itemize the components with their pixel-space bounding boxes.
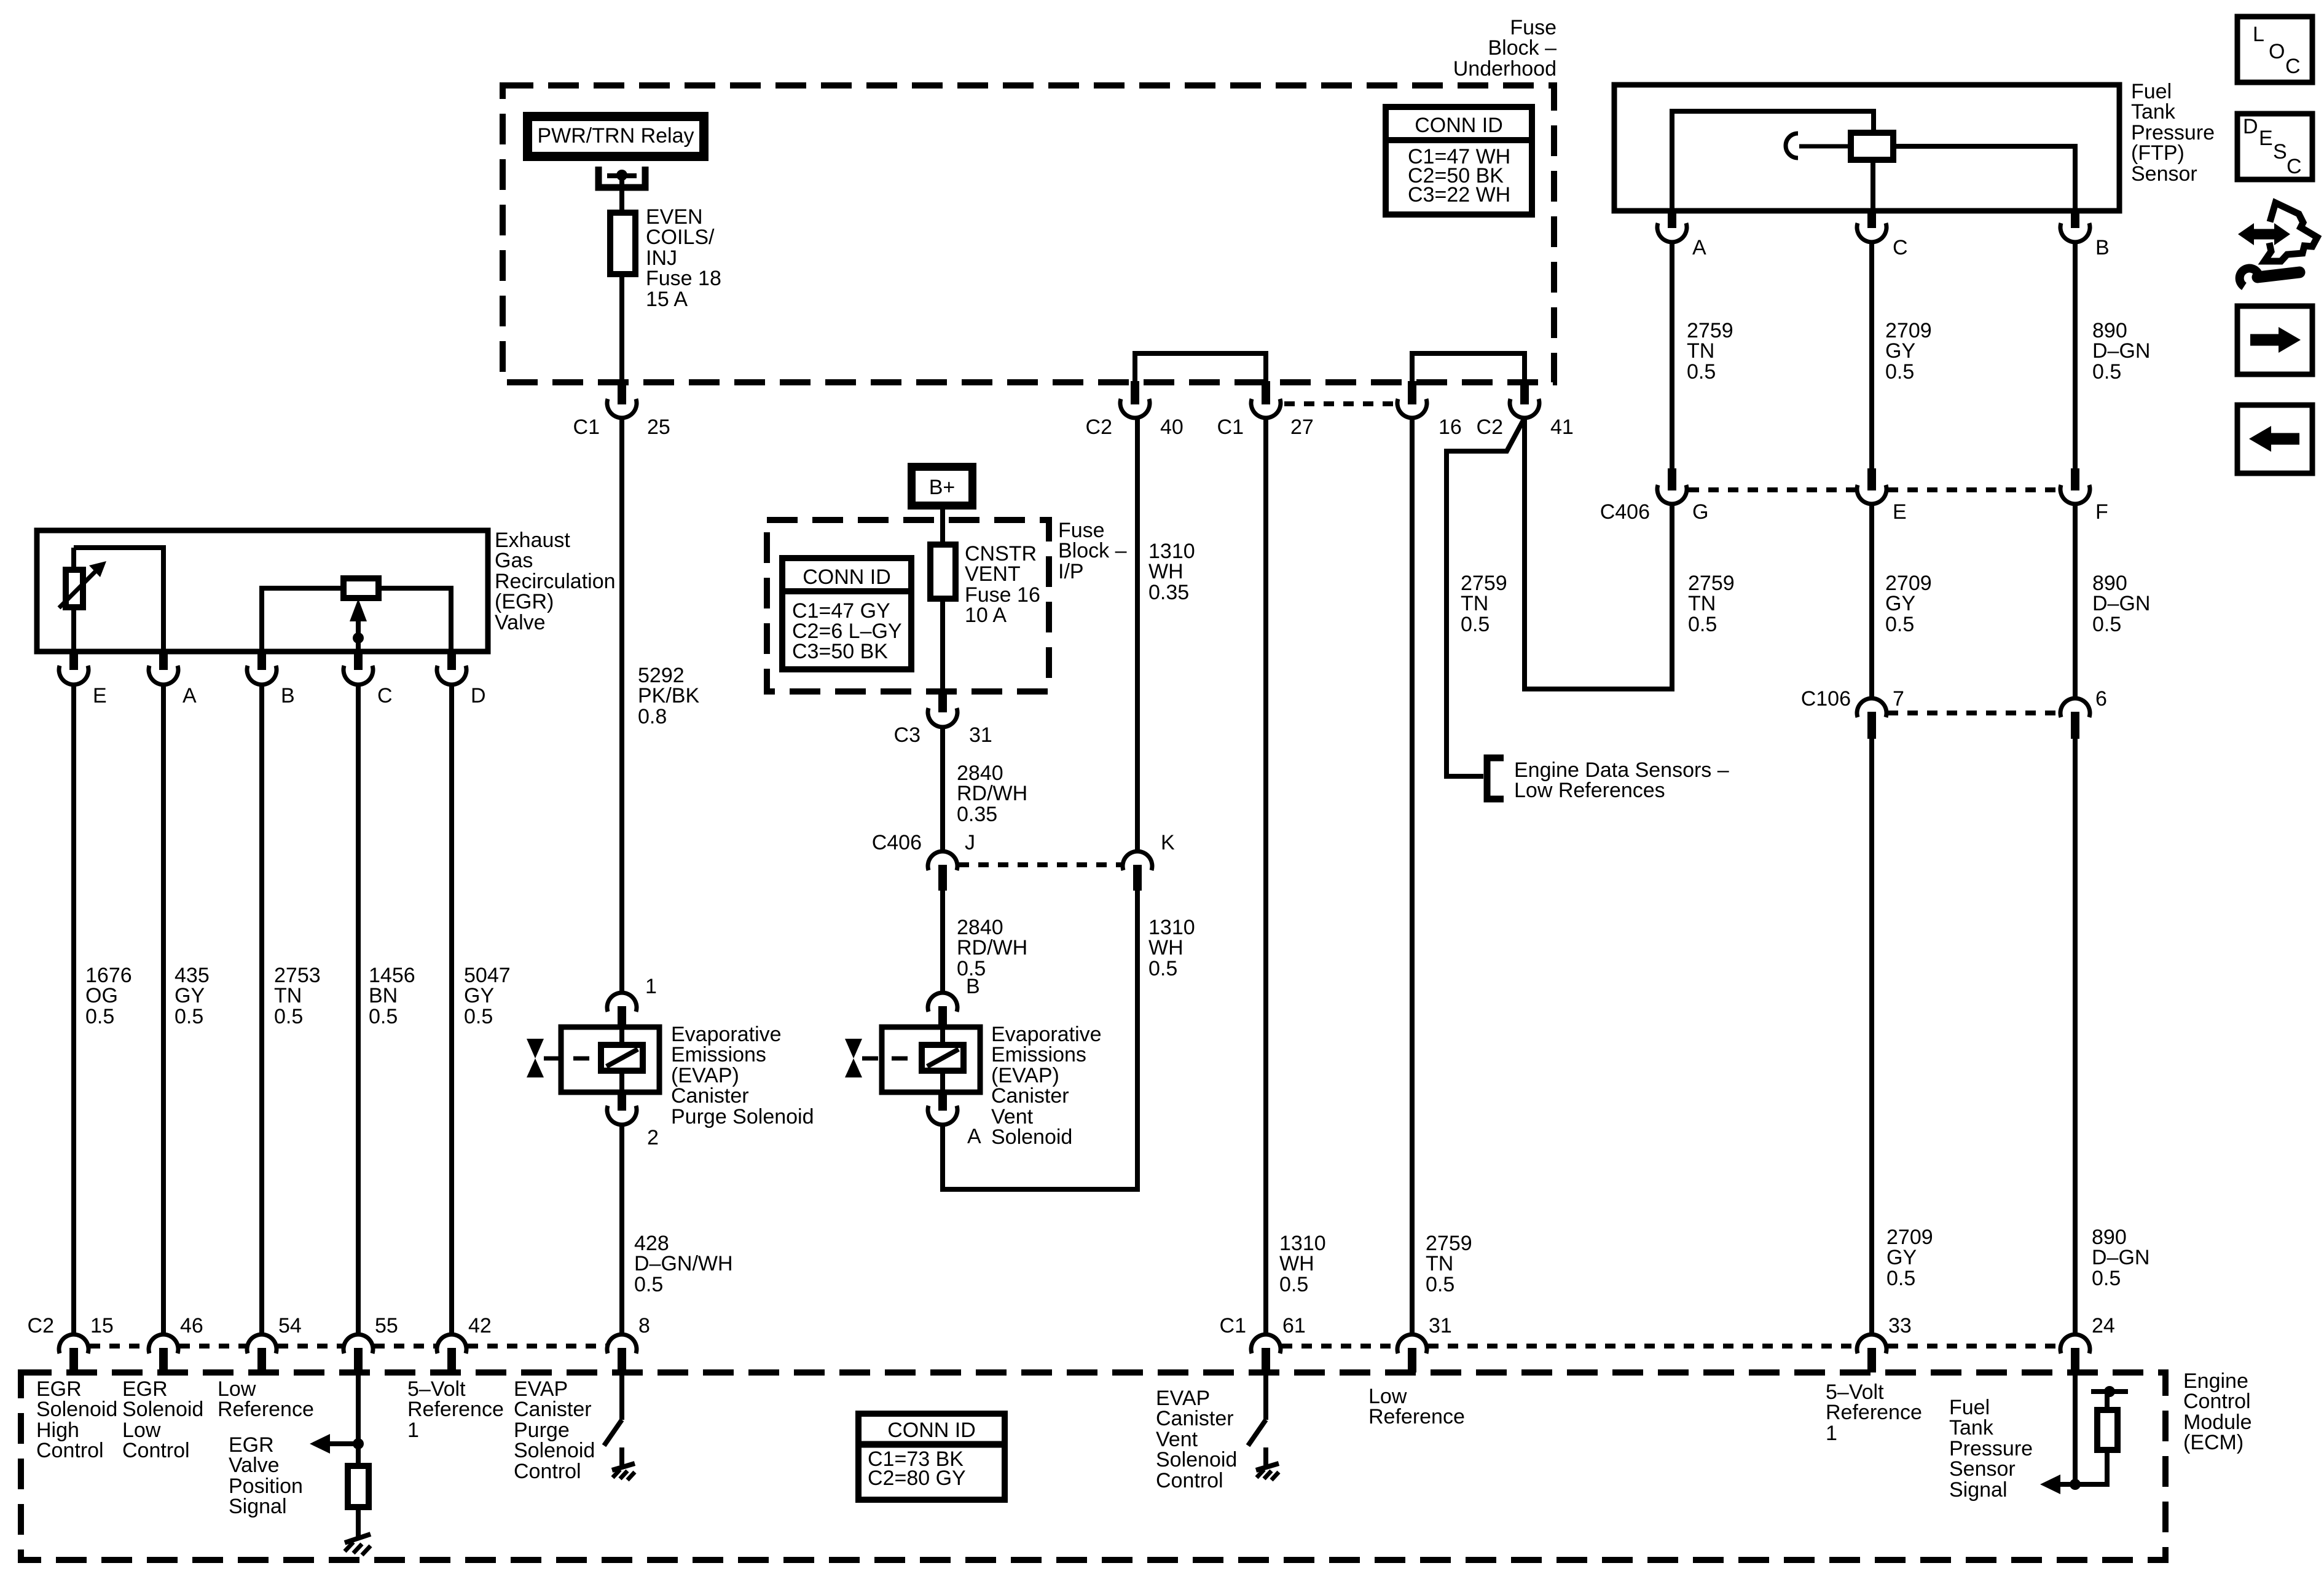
EGR position sensor potentiometer bbox=[262, 588, 451, 652]
svg-text:Control: Control bbox=[1156, 1469, 1223, 1492]
svg-text:C3=50 BK: C3=50 BK bbox=[792, 640, 888, 663]
svg-text:Solenoid: Solenoid bbox=[36, 1398, 117, 1421]
wire fuse 16 to C3-31 bbox=[940, 599, 945, 712]
svg-text:Canister: Canister bbox=[514, 1398, 592, 1421]
wire 5047 GY 0.5 (D to ECM 42) bbox=[449, 683, 454, 1336]
svg-text:Canister: Canister bbox=[1156, 1407, 1234, 1430]
svg-text:OG: OG bbox=[85, 984, 118, 1007]
svg-text:Low References: Low References bbox=[1514, 779, 1665, 802]
svg-text:0.5: 0.5 bbox=[274, 1005, 303, 1028]
switch EVAP vent solenoid control (pin 61) bbox=[1263, 1372, 1268, 1420]
svg-text:TN: TN bbox=[274, 984, 302, 1007]
svg-text:Emissions: Emissions bbox=[671, 1043, 766, 1066]
icon arrow left box bbox=[2237, 405, 2312, 473]
svg-text:10 A: 10 A bbox=[965, 604, 1007, 627]
svg-text:0.5: 0.5 bbox=[369, 1005, 398, 1028]
EGR wiper arrow bbox=[356, 605, 361, 652]
svg-text:TN: TN bbox=[1687, 339, 1714, 363]
svg-text:B: B bbox=[2095, 236, 2110, 259]
FTP sensor half-circle element bbox=[1786, 133, 1798, 158]
connector C106 pin 7 bbox=[1857, 698, 1886, 717]
EVAP canister purge solenoid box bbox=[561, 1027, 659, 1092]
connector purge solenoid pin 1 bbox=[607, 993, 637, 1012]
svg-text:CONN ID: CONN ID bbox=[1415, 114, 1503, 137]
wire resistor to pin C bbox=[1871, 160, 1875, 211]
svg-text:F: F bbox=[2095, 500, 2108, 524]
svg-text:8: 8 bbox=[638, 1314, 650, 1337]
svg-text:Purge Solenoid: Purge Solenoid bbox=[671, 1105, 814, 1128]
svg-text:55: 55 bbox=[375, 1314, 398, 1337]
svg-text:WH: WH bbox=[1279, 1252, 1314, 1275]
EGR pin B connector bbox=[257, 650, 266, 670]
svg-text:Valve: Valve bbox=[495, 611, 546, 634]
wire loop pins 40-27 inside fuse block bbox=[1135, 353, 1266, 384]
svg-text:24: 24 bbox=[2092, 1314, 2115, 1337]
svg-text:2: 2 bbox=[647, 1126, 659, 1149]
svg-text:0.8: 0.8 bbox=[638, 705, 667, 728]
relay K1 PWR/TRN Relay label box bbox=[523, 112, 709, 161]
connector C406 pin F bbox=[2071, 468, 2079, 490]
svg-text:15 A: 15 A bbox=[646, 288, 688, 311]
svg-text:PWR/TRN Relay: PWR/TRN Relay bbox=[537, 124, 694, 148]
connector C406 pin G bbox=[1668, 468, 1676, 490]
svg-text:1: 1 bbox=[1826, 1422, 1837, 1445]
wire 890 D-GN 0.5 (B to C406 F) bbox=[2073, 241, 2078, 470]
svg-text:Tank: Tank bbox=[2131, 100, 2176, 124]
connector vent solenoid pin A bbox=[938, 1092, 947, 1111]
node FTP sensor signal network (pin 24) bbox=[2073, 1372, 2078, 1487]
svg-text:0.5: 0.5 bbox=[1148, 957, 1177, 980]
svg-text:BN: BN bbox=[369, 984, 398, 1007]
wire 2753 TN 0.5 (B to ECM 54) bbox=[259, 683, 264, 1336]
svg-text:Control: Control bbox=[122, 1439, 190, 1462]
dashed link 27-16 bbox=[1284, 401, 1396, 406]
exhaust gas recirculation EGR valve box bbox=[37, 530, 488, 652]
svg-text:1: 1 bbox=[645, 975, 657, 998]
connector C406 pin K bbox=[1123, 851, 1152, 870]
svg-text:I/P: I/P bbox=[1058, 560, 1084, 583]
wire 890 D-GN 0.5 (C106 6 to ECM 24) bbox=[2073, 738, 2078, 1336]
svg-text:C1: C1 bbox=[1217, 415, 1244, 439]
svg-text:CONN ID: CONN ID bbox=[887, 1419, 976, 1442]
svg-text:D: D bbox=[2243, 115, 2258, 138]
purge solenoid coil bbox=[601, 1045, 643, 1071]
svg-text:C2: C2 bbox=[1086, 415, 1112, 439]
svg-text:0.5: 0.5 bbox=[634, 1273, 663, 1296]
svg-text:25: 25 bbox=[647, 415, 670, 439]
svg-text:Canister: Canister bbox=[991, 1084, 1069, 1108]
wire 2759 TN 0.5 (16 to ECM 31) bbox=[1410, 417, 1415, 1336]
ground inside ECM (pin 55) bbox=[345, 1534, 371, 1543]
svg-text:E: E bbox=[1893, 500, 1907, 524]
svg-text:Tank: Tank bbox=[1949, 1416, 1994, 1439]
svg-text:15: 15 bbox=[90, 1314, 114, 1337]
svg-text:Control: Control bbox=[2183, 1390, 2251, 1413]
svg-text:0.5: 0.5 bbox=[1885, 613, 1914, 636]
svg-text:Block –: Block – bbox=[1058, 539, 1127, 562]
connector ECM pin 54 bbox=[247, 1334, 277, 1353]
EGR pin D connector bbox=[447, 650, 456, 670]
svg-text:(FTP): (FTP) bbox=[2131, 141, 2185, 165]
svg-text:B: B bbox=[966, 975, 980, 998]
svg-text:(ECM): (ECM) bbox=[2183, 1431, 2244, 1454]
wire 890 D-GN 0.5 (F to C106 6) bbox=[2073, 503, 2078, 699]
svg-text:Solenoid: Solenoid bbox=[514, 1439, 595, 1462]
svg-text:41: 41 bbox=[1550, 415, 1574, 439]
svg-text:61: 61 bbox=[1282, 1314, 1306, 1337]
svg-text:COILS/: COILS/ bbox=[646, 226, 715, 249]
connector C1 pin 27 bbox=[1262, 381, 1270, 404]
svg-text:WH: WH bbox=[1148, 936, 1184, 959]
svg-text:16: 16 bbox=[1439, 415, 1462, 439]
wire 1456 BN 0.5 (C to ECM 55) bbox=[356, 683, 361, 1336]
node EGR valve position signal arrow (pin 55) bbox=[356, 1372, 361, 1466]
wire 1310 WH 0.5 (K to vent solenoid A) bbox=[943, 889, 1137, 1189]
EGR solenoid coil (variable resistor) bbox=[71, 548, 76, 570]
fuse F16 CNSTR VENT 10A bbox=[930, 545, 956, 599]
svg-text:Reference: Reference bbox=[218, 1398, 314, 1421]
icon LOC box bbox=[2237, 17, 2312, 82]
svg-text:(EGR): (EGR) bbox=[495, 590, 554, 613]
svg-text:GY: GY bbox=[1885, 339, 1915, 363]
connector pin 16 bbox=[1408, 381, 1416, 404]
svg-text:RD/WH: RD/WH bbox=[957, 782, 1027, 805]
svg-text:Fuse 18: Fuse 18 bbox=[646, 267, 721, 290]
resistor inside ECM on pin 24 bbox=[2097, 1410, 2118, 1450]
wire 1310 WH 0.35 (C2-40 to C406 K) bbox=[1135, 417, 1140, 853]
svg-text:Reference: Reference bbox=[1826, 1401, 1922, 1424]
wire 2709 GY 0.5 (C to C406 E) bbox=[1869, 241, 1874, 470]
fuse block - underhood dashed box bbox=[503, 85, 1554, 382]
wire 2759 TN 0.5 (A to C406 G) bbox=[1670, 241, 1674, 470]
svg-text:Solenoid: Solenoid bbox=[991, 1125, 1072, 1149]
engine control module ECM dashed box bbox=[21, 1372, 2165, 1560]
connector ECM pin 31 bbox=[1397, 1334, 1427, 1353]
wire 2840 RD/WH 0.5 (J to vent solenoid B) bbox=[940, 889, 945, 994]
svg-text:Solenoid: Solenoid bbox=[1156, 1448, 1237, 1471]
EVAP canister vent solenoid box bbox=[882, 1027, 980, 1092]
svg-text:C406: C406 bbox=[1600, 500, 1650, 524]
icon vehicle double arrow bbox=[2251, 229, 2277, 240]
svg-text:O: O bbox=[2269, 40, 2285, 63]
svg-text:B: B bbox=[281, 684, 295, 707]
svg-text:0.5: 0.5 bbox=[1426, 1273, 1454, 1296]
svg-text:PK/BK: PK/BK bbox=[638, 684, 699, 707]
svg-text:Gas: Gas bbox=[495, 549, 533, 572]
svg-text:GY: GY bbox=[1885, 592, 1915, 615]
dashed link C106 7-6 bbox=[1888, 711, 2059, 715]
wire fuse 18 to connector C1-25 bbox=[619, 274, 624, 384]
svg-text:D–GN: D–GN bbox=[2092, 1246, 2149, 1269]
connector C406 pin J bbox=[928, 851, 957, 870]
svg-text:0.5: 0.5 bbox=[1886, 1267, 1915, 1290]
svg-text:J: J bbox=[965, 831, 975, 854]
svg-text:0.5: 0.5 bbox=[464, 1005, 493, 1028]
svg-text:WH: WH bbox=[1148, 560, 1184, 583]
wire 2709 GY 0.5 (E to C106 7) bbox=[1869, 503, 1874, 699]
icon wrench bbox=[2258, 272, 2299, 277]
switch EVAP purge solenoid control (pin 8) bbox=[619, 1372, 624, 1420]
svg-text:Control: Control bbox=[36, 1439, 104, 1462]
vent solenoid coil bbox=[922, 1045, 964, 1071]
svg-text:33: 33 bbox=[1888, 1314, 1912, 1337]
vent solenoid valve symbol bbox=[845, 1039, 862, 1058]
svg-text:0.5: 0.5 bbox=[1687, 360, 1716, 384]
svg-text:Reference: Reference bbox=[407, 1398, 504, 1421]
relay contact symbol bbox=[599, 167, 645, 187]
svg-text:0.5: 0.5 bbox=[1279, 1273, 1308, 1296]
connector vent solenoid pin B bbox=[928, 993, 957, 1012]
connector C406 pin E bbox=[1867, 468, 1876, 490]
connector C3 pin 31 bbox=[938, 690, 947, 712]
connector ECM pin 24 bbox=[2060, 1334, 2090, 1353]
svg-text:TN: TN bbox=[1461, 592, 1488, 615]
svg-text:C1: C1 bbox=[1220, 1314, 1246, 1337]
dashed link C406 E-F bbox=[1888, 487, 2059, 492]
svg-text:C: C bbox=[2287, 155, 2302, 178]
connector C106 pin 6 bbox=[2060, 698, 2090, 717]
EGR pin E connector bbox=[69, 650, 78, 670]
connector C2 pin 40 bbox=[1131, 381, 1139, 404]
svg-text:Reference: Reference bbox=[1368, 1405, 1465, 1428]
connector ECM pin 33 bbox=[1857, 1334, 1886, 1353]
svg-text:Block –: Block – bbox=[1488, 36, 1557, 60]
FTP pin B connector bbox=[2071, 210, 2079, 228]
wire 1676 OG 0.5 (E to ECM 15) bbox=[71, 683, 76, 1336]
svg-text:Solenoid: Solenoid bbox=[122, 1398, 203, 1421]
svg-text:E: E bbox=[93, 684, 107, 707]
svg-text:0.35: 0.35 bbox=[1148, 581, 1189, 604]
resistor inside ECM on pin 55 bbox=[348, 1466, 369, 1507]
connector C1 pin 25 bbox=[618, 381, 626, 404]
svg-text:B+: B+ bbox=[929, 476, 956, 499]
FTP pin A connector bbox=[1668, 210, 1676, 228]
wire resistor to pin B bbox=[1893, 146, 2075, 211]
FTP resistor element bbox=[1851, 133, 1893, 160]
connector ECM pin 61 bbox=[1251, 1334, 1281, 1353]
dashed link C406 G-E bbox=[1689, 487, 1856, 492]
svg-text:D–GN/WH: D–GN/WH bbox=[634, 1252, 733, 1275]
svg-text:TN: TN bbox=[1426, 1252, 1453, 1275]
purge solenoid valve symbol bbox=[527, 1039, 544, 1058]
svg-text:D–GN: D–GN bbox=[2092, 339, 2150, 363]
svg-text:Valve: Valve bbox=[229, 1454, 280, 1477]
svg-text:C3=22 WH: C3=22 WH bbox=[1408, 183, 1510, 207]
CONN ID table (ECM) bbox=[858, 1414, 1005, 1500]
svg-text:7: 7 bbox=[1893, 687, 1904, 711]
svg-text:0.5: 0.5 bbox=[1885, 360, 1914, 384]
svg-text:Signal: Signal bbox=[1949, 1478, 2008, 1502]
svg-text:0.5: 0.5 bbox=[1688, 613, 1717, 636]
svg-text:A: A bbox=[1692, 236, 1706, 259]
svg-text:Signal: Signal bbox=[229, 1495, 287, 1518]
svg-text:CONN ID: CONN ID bbox=[803, 565, 891, 589]
icon arrow right box bbox=[2237, 306, 2312, 374]
svg-text:C2: C2 bbox=[1477, 415, 1503, 439]
connector ECM pin 55 bbox=[343, 1334, 373, 1353]
svg-text:0.5: 0.5 bbox=[175, 1005, 203, 1028]
FTP pin C connector bbox=[1867, 210, 1876, 228]
connector ECM pin 8 bbox=[607, 1334, 637, 1353]
wire 435 GY 0.5 (A to ECM 46) bbox=[161, 683, 166, 1336]
wire 5292 PK/BK 0.8 bbox=[619, 417, 624, 994]
svg-text:40: 40 bbox=[1160, 415, 1184, 439]
junction bar pin 24 pull-up bbox=[2091, 1389, 2128, 1394]
svg-text:Control: Control bbox=[514, 1460, 581, 1483]
svg-text:46: 46 bbox=[180, 1314, 203, 1337]
svg-text:6: 6 bbox=[2095, 687, 2107, 711]
svg-text:42: 42 bbox=[468, 1314, 492, 1337]
wire 2840 RD/WH 0.35 bbox=[940, 726, 945, 853]
svg-text:31: 31 bbox=[969, 723, 992, 747]
svg-text:Sensor: Sensor bbox=[2131, 162, 2197, 186]
ground pin 61 bbox=[1263, 1447, 1268, 1465]
connector ECM pin 15 bbox=[59, 1334, 88, 1353]
svg-text:Underhood: Underhood bbox=[1453, 57, 1557, 81]
svg-text:GY: GY bbox=[175, 984, 205, 1007]
svg-text:0.5: 0.5 bbox=[1461, 613, 1490, 636]
node B+ battery feed bbox=[908, 463, 976, 510]
EGR pin A connector bbox=[159, 650, 168, 670]
svg-text:Canister: Canister bbox=[671, 1084, 749, 1108]
dashed link C406 J-K bbox=[959, 862, 1122, 867]
svg-text:C1: C1 bbox=[573, 415, 600, 439]
dashed links between ECM pins bbox=[90, 1344, 147, 1349]
svg-text:D–GN: D–GN bbox=[2092, 592, 2150, 615]
svg-text:A: A bbox=[967, 1125, 981, 1148]
svg-text:C: C bbox=[377, 684, 393, 707]
svg-text:K: K bbox=[1161, 831, 1175, 854]
svg-text:VENT: VENT bbox=[965, 562, 1021, 586]
svg-text:TN: TN bbox=[1688, 592, 1716, 615]
wire 2759 TN 0.5 (G down to junction with 41) bbox=[1525, 417, 1672, 689]
fuse block - I/P dashed box bbox=[767, 520, 1049, 691]
svg-text:0.5: 0.5 bbox=[85, 1005, 114, 1028]
connector ECM pin 42 bbox=[437, 1334, 466, 1353]
wire 41 to engine data sensors bus bbox=[1447, 418, 1525, 776]
svg-text:C3: C3 bbox=[894, 723, 921, 747]
bracket engine data sensors bbox=[1487, 758, 1504, 799]
wire 428 D-GN/WH 0.5 (pin 2 to ECM 8) bbox=[619, 1124, 624, 1336]
svg-text:C106: C106 bbox=[1801, 687, 1851, 711]
fuel tank pressure sensor box bbox=[1614, 85, 2119, 211]
svg-text:0.5: 0.5 bbox=[2092, 360, 2121, 384]
svg-text:S: S bbox=[2273, 140, 2287, 163]
svg-text:31: 31 bbox=[1429, 1314, 1452, 1337]
CONN ID table (fuse block I/P) bbox=[782, 558, 911, 669]
svg-text:C: C bbox=[2285, 55, 2301, 78]
svg-text:C406: C406 bbox=[872, 831, 922, 854]
wire loop pins 16-41 inside fuse block bbox=[1412, 353, 1525, 384]
svg-text:27: 27 bbox=[1290, 415, 1314, 439]
svg-text:C2: C2 bbox=[28, 1314, 54, 1337]
fuse F18 EVEN COILS/INJ 15A bbox=[610, 213, 635, 274]
svg-text:GY: GY bbox=[464, 984, 494, 1007]
svg-text:0.5: 0.5 bbox=[2092, 613, 2121, 636]
svg-text:0.35: 0.35 bbox=[957, 803, 997, 826]
svg-text:C: C bbox=[1893, 236, 1908, 259]
svg-text:E: E bbox=[2259, 127, 2273, 150]
svg-text:G: G bbox=[1692, 500, 1708, 524]
svg-text:L: L bbox=[2253, 23, 2264, 46]
connector ECM pin 46 bbox=[149, 1334, 178, 1353]
svg-text:Sensor: Sensor bbox=[1949, 1457, 2016, 1481]
EGR pin C connector bbox=[354, 650, 363, 670]
svg-text:1: 1 bbox=[407, 1419, 419, 1442]
svg-text:RD/WH: RD/WH bbox=[957, 936, 1027, 959]
ground pin 8 bbox=[619, 1447, 624, 1465]
connector C2 pin 41 bbox=[1520, 381, 1529, 404]
wire 2709 GY 0.5 (C106 7 to ECM 33) bbox=[1869, 738, 1874, 1336]
icon DESC box bbox=[2237, 114, 2312, 179]
svg-text:54: 54 bbox=[278, 1314, 302, 1337]
svg-text:Emissions: Emissions bbox=[991, 1043, 1086, 1066]
svg-text:A: A bbox=[183, 684, 197, 707]
FTP inner box bbox=[1672, 111, 1874, 211]
wire B+ to fuse 16 bbox=[940, 510, 945, 545]
wire 1310 WH 0.5 (C1-27 to ECM C1-61) bbox=[1263, 417, 1268, 1336]
svg-text:0.5: 0.5 bbox=[2092, 1267, 2121, 1290]
svg-text:C2=80 GY: C2=80 GY bbox=[868, 1467, 966, 1490]
svg-text:GY: GY bbox=[1886, 1246, 1917, 1269]
wire sensor element to resistor bbox=[1799, 144, 1851, 149]
connector purge solenoid pin 2 bbox=[618, 1092, 626, 1111]
wire relay to fuse 18 bbox=[619, 175, 624, 213]
svg-text:D: D bbox=[471, 684, 486, 707]
CONN ID table (fuse block underhood) bbox=[1386, 107, 1532, 215]
